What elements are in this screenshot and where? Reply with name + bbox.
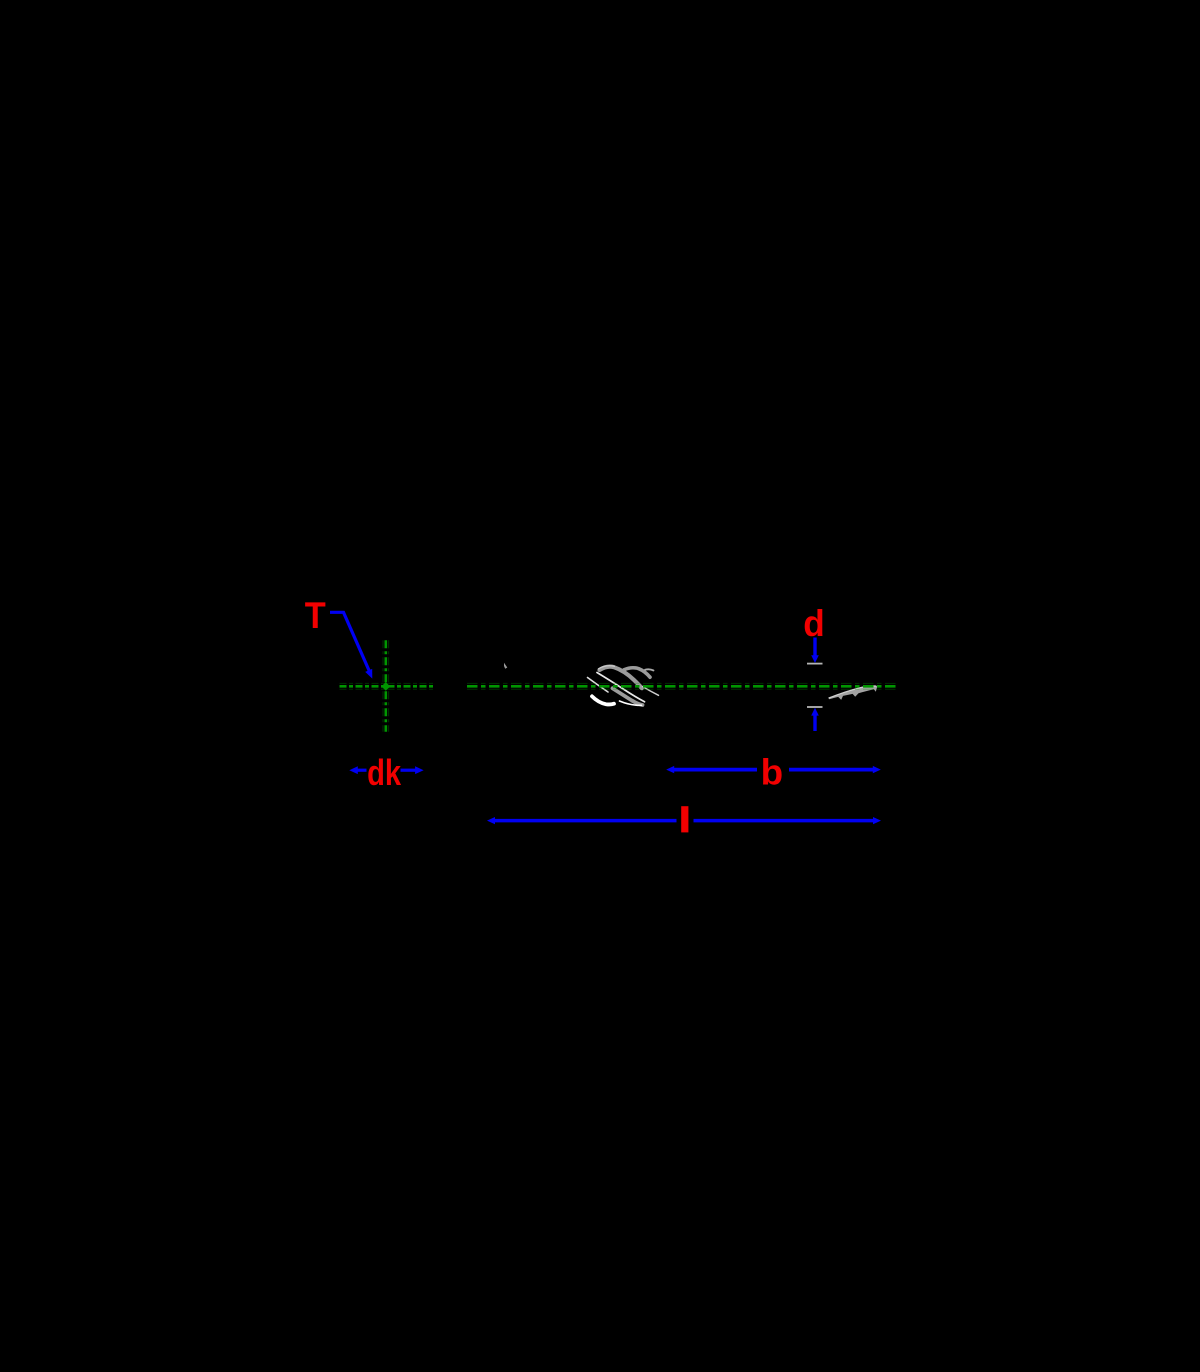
- svg-text:T: T: [305, 595, 326, 636]
- svg-text:dk: dk: [367, 752, 402, 793]
- svg-text:d: d: [803, 602, 825, 644]
- svg-text:b: b: [761, 752, 784, 793]
